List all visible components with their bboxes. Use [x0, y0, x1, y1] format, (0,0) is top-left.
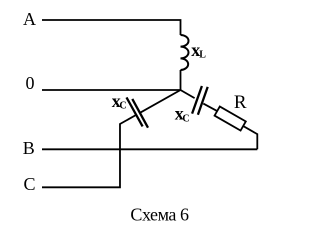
resistor R body	[215, 107, 246, 131]
wire node to left capacitor	[140, 90, 181, 113]
svg-text:C: C	[182, 113, 189, 124]
wire resistor to corner down to line B	[243, 126, 257, 149]
svg-text:B: B	[23, 138, 35, 158]
wire phase line B	[42, 148, 257, 150]
svg-text:Схема 6: Схема 6	[130, 204, 189, 224]
wire right capacitor to resistor	[203, 104, 217, 111]
svg-text:0: 0	[26, 73, 35, 93]
svg-text:R: R	[234, 92, 247, 113]
svg-text:C: C	[119, 101, 126, 112]
capacitor XC left plates	[127, 97, 149, 127]
wire phase line A	[42, 20, 181, 35]
wire node to right capacitor	[181, 90, 195, 98]
wire left capacitor to corner down to line C	[42, 115, 136, 187]
svg-text:L: L	[199, 50, 206, 61]
capacitor XC right plates	[192, 86, 208, 115]
svg-text:A: A	[23, 9, 36, 29]
wire neutral line 0	[42, 89, 181, 91]
wire inductor to node	[180, 70, 182, 90]
svg-text:C: C	[24, 174, 36, 194]
inductor XL	[181, 35, 189, 70]
